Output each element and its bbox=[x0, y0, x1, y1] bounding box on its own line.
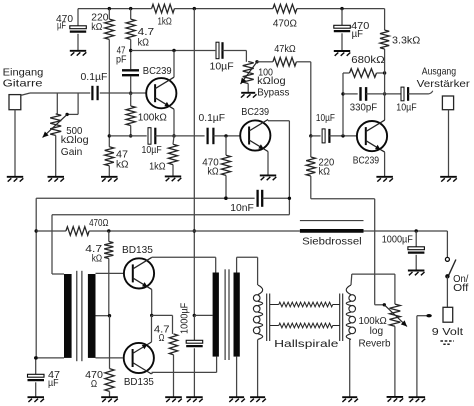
svg-text:kΩ: kΩ bbox=[138, 37, 150, 49]
svg-text:BC239: BC239 bbox=[241, 106, 269, 118]
svg-text:kΩlog: kΩlog bbox=[257, 75, 286, 87]
svg-text:470Ω: 470Ω bbox=[273, 18, 297, 30]
svg-text:100kΩ: 100kΩ bbox=[138, 111, 167, 123]
svg-text:10µF: 10µF bbox=[210, 60, 234, 72]
svg-text:1000µF: 1000µF bbox=[382, 234, 413, 246]
svg-text:µF: µF bbox=[48, 377, 59, 389]
svg-text:kΩ: kΩ bbox=[319, 166, 331, 178]
svg-text:10nF: 10nF bbox=[230, 202, 254, 214]
svg-text:kΩlog: kΩlog bbox=[61, 134, 89, 146]
svg-text:3.3kΩ: 3.3kΩ bbox=[392, 35, 420, 47]
svg-text:330pF: 330pF bbox=[350, 102, 377, 114]
svg-text:47kΩ: 47kΩ bbox=[274, 43, 296, 55]
svg-text:Off: Off bbox=[453, 282, 468, 294]
svg-text:10µF: 10µF bbox=[316, 112, 335, 124]
svg-text:9 Volt: 9 Volt bbox=[432, 326, 463, 338]
svg-text:kΩ: kΩ bbox=[92, 253, 103, 265]
svg-text:Ω: Ω bbox=[91, 378, 97, 390]
svg-text:kΩ: kΩ bbox=[207, 166, 218, 178]
svg-text:0.1µF: 0.1µF bbox=[81, 71, 108, 83]
svg-text:Reverb: Reverb bbox=[359, 338, 391, 350]
svg-text:log: log bbox=[370, 325, 384, 337]
svg-text:BC239: BC239 bbox=[143, 65, 172, 77]
svg-text:Verstärker: Verstärker bbox=[417, 78, 471, 90]
svg-text:Siebdrossel: Siebdrossel bbox=[302, 235, 362, 247]
svg-text:Gitarre: Gitarre bbox=[3, 78, 43, 90]
svg-text:680kΩ: 680kΩ bbox=[351, 54, 385, 66]
svg-text:Ausgang: Ausgang bbox=[422, 66, 456, 78]
svg-text:0.1µF: 0.1µF bbox=[199, 112, 226, 124]
svg-text:10µF: 10µF bbox=[396, 102, 416, 114]
svg-text:10µF: 10µF bbox=[142, 144, 162, 156]
svg-text:470Ω: 470Ω bbox=[89, 217, 109, 229]
svg-text:µF: µF bbox=[57, 20, 66, 32]
svg-text:Hallspirale: Hallspirale bbox=[274, 338, 338, 350]
svg-text:1kΩ: 1kΩ bbox=[158, 16, 172, 28]
svg-text:Bypass: Bypass bbox=[257, 86, 289, 98]
svg-text:µF: µF bbox=[352, 28, 363, 40]
svg-text:Ω: Ω bbox=[159, 332, 165, 344]
svg-text:BD135: BD135 bbox=[122, 244, 153, 256]
svg-text:kΩ: kΩ bbox=[116, 159, 129, 171]
svg-text:pF: pF bbox=[116, 54, 127, 66]
svg-text:Gain: Gain bbox=[61, 146, 83, 158]
svg-text:1kΩ: 1kΩ bbox=[149, 161, 166, 173]
svg-text:BC239: BC239 bbox=[353, 155, 380, 167]
svg-text:kΩ: kΩ bbox=[91, 21, 102, 33]
svg-text:Eingang: Eingang bbox=[3, 66, 44, 78]
svg-text:1000µF: 1000µF bbox=[178, 303, 190, 334]
svg-text:BD135: BD135 bbox=[124, 376, 154, 388]
